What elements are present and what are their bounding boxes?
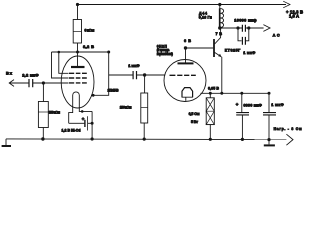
supply arrow +12,3V xyxy=(283,1,290,8)
battery GB1 short plate xyxy=(84,120,86,127)
svg-text:1П24Б-В: 1П24Б-В xyxy=(108,88,120,92)
svg-text:0,16 Гн: 0,16 Гн xyxy=(199,16,212,20)
svg-text:2,2 мкФ: 2,2 мкФ xyxy=(22,73,39,78)
wire emitter down xyxy=(221,57,223,93)
node grid2 junction xyxy=(143,73,146,76)
svg-text:1,2 В Ni-Cd: 1,2 В Ni-Cd xyxy=(62,129,81,133)
svg-text:100 кОм: 100 кОм xyxy=(120,105,132,109)
tube VL2 filament bar xyxy=(182,97,193,101)
svg-text:6 В: 6 В xyxy=(184,39,191,43)
node top of L1 xyxy=(218,3,221,6)
svg-text:Вх: Вх xyxy=(6,70,13,75)
wire anode to coupling cap xyxy=(109,74,133,76)
node grid input junction xyxy=(42,81,45,84)
wire inner grid wrap xyxy=(59,52,69,73)
wire bottom rail xyxy=(6,138,286,141)
tube VL1 envelope xyxy=(61,56,94,108)
tube VL2 grid xyxy=(170,74,196,76)
wire filament left leg to battery xyxy=(69,110,73,123)
ground right xyxy=(268,140,270,145)
wire right wrap to cathode xyxy=(91,52,109,95)
node rail R3 xyxy=(143,138,146,141)
svg-text:5 Вт: 5 Вт xyxy=(191,120,198,124)
transistor VT1 emitter xyxy=(215,52,222,57)
node right wrap top xyxy=(107,51,110,54)
resistor R1 anode load xyxy=(77,5,79,20)
capacitor C2 coupling 1uF xyxy=(133,71,136,79)
node top of R1 xyxy=(76,3,79,6)
resistor R3 100k xyxy=(144,75,146,93)
wire cap to grid2 xyxy=(137,74,166,76)
node plate VL2 xyxy=(184,46,187,49)
svg-text:1,6 А: 1,6 А xyxy=(289,14,299,19)
input arrow Vx xyxy=(9,80,14,87)
tube VL2 envelope xyxy=(164,60,206,102)
transistor VT1 base bar xyxy=(213,39,215,57)
wire outer grid wrap xyxy=(52,52,69,78)
transistor VT1 collector xyxy=(215,28,221,44)
node emitter rail VT1 xyxy=(220,92,223,95)
resistor R4 0,5 Ohm xyxy=(209,93,211,98)
svg-text:6800 мкФ: 6800 мкФ xyxy=(243,104,262,108)
svg-text:8,2 В: 8,2 В xyxy=(83,44,94,49)
svg-text:Нагр. - 8 Ом: Нагр. - 8 Ом xyxy=(274,127,302,131)
node filament right xyxy=(81,110,84,113)
wire output line xyxy=(220,27,242,29)
node rail R4 xyxy=(209,138,212,141)
node emitter rail C6 xyxy=(240,92,243,95)
svg-text:1 мкФ: 1 мкФ xyxy=(128,63,140,68)
svg-text:10000 мкф: 10000 мкф xyxy=(234,18,257,22)
node out right xyxy=(247,26,250,29)
wire filament right leg xyxy=(79,110,92,111)
tube VL2 filament xyxy=(182,88,193,98)
tube VL1 grid row 2 xyxy=(69,77,87,79)
node emitter rail R4 xyxy=(209,92,212,95)
wire plate to base xyxy=(186,47,214,49)
wire anode line y52 xyxy=(52,51,109,53)
node emitter rail C7 xyxy=(268,92,271,95)
tube VL2 plate xyxy=(185,48,187,63)
ground left xyxy=(5,139,7,146)
svg-text:1 мкФ: 1 мкФ xyxy=(243,51,256,55)
capacitor C6 6800uF xyxy=(241,93,243,112)
tube VL1 grid row 3 xyxy=(69,82,87,84)
node inner wrap top xyxy=(58,51,61,54)
capacitor C7 out 1uF xyxy=(268,93,270,112)
node anode junction xyxy=(76,51,79,54)
svg-text:+: + xyxy=(236,102,239,107)
svg-text:1 мкФ: 1 мкФ xyxy=(271,103,284,107)
node collector choke xyxy=(218,26,221,29)
svg-text:7 В: 7 В xyxy=(216,32,223,36)
svg-text:6,5 Ом: 6,5 Ом xyxy=(189,112,200,116)
node rail R2 xyxy=(41,137,44,140)
svg-text:КТ825Г: КТ825Г xyxy=(225,48,241,52)
transistor VT1 emitter arrow xyxy=(218,54,221,57)
battery GB1 long plate xyxy=(87,116,89,130)
tube VL1 grid row 1 xyxy=(69,72,87,74)
capacitor C1 2,2uF xyxy=(29,79,33,87)
inductor L1 choke xyxy=(219,5,221,29)
svg-text:330 кОм: 330 кОм xyxy=(49,111,61,115)
svg-text:6,65 В: 6,65 В xyxy=(208,86,219,90)
node cathode tap xyxy=(92,94,95,97)
node battery junction xyxy=(91,122,94,125)
tube VL1 plate xyxy=(77,52,79,66)
wire input xyxy=(9,82,29,84)
tube VL1 filament xyxy=(73,92,80,110)
resistor R2 grid leak 330k xyxy=(42,83,44,102)
svg-text:+: + xyxy=(82,117,85,122)
capacitor C5 bypass 1uF xyxy=(238,28,249,41)
wire battery plus down xyxy=(91,111,93,138)
svg-text:6 кОм: 6 кОм xyxy=(84,28,94,33)
capacitor C4 10000uF xyxy=(242,25,245,32)
load arrow xyxy=(286,134,293,145)
node out left xyxy=(236,26,239,29)
svg-text:параллельно): параллельно) xyxy=(157,52,173,56)
node rail C6 xyxy=(241,138,244,141)
output arrow AC xyxy=(263,25,270,32)
node rail battery xyxy=(91,137,94,140)
wire emitter rail xyxy=(201,92,270,94)
node rail C7 xyxy=(267,138,270,141)
wire cap to grid xyxy=(33,82,69,84)
battery GB1 wire xyxy=(69,122,85,124)
wire top supply rail xyxy=(78,4,287,6)
svg-text:АС: АС xyxy=(273,33,280,37)
